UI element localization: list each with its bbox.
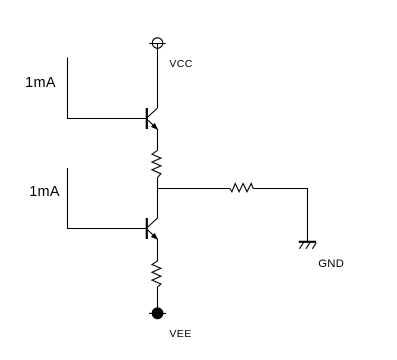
wire (253, 189, 307, 242)
wire (158, 188, 230, 190)
svg-text:GND: GND (318, 258, 344, 270)
VEE terminal (149, 308, 166, 319)
svg-text:1mA: 1mA (29, 184, 60, 200)
svg-text:VEE: VEE (169, 328, 191, 340)
ground (299, 242, 316, 249)
transistor Q1 (147, 108, 158, 129)
wire (157, 287, 159, 308)
wire (157, 44, 159, 109)
VCC terminal (149, 38, 165, 48)
wire (157, 178, 159, 219)
transistor Q2 (147, 218, 158, 239)
wire (68, 58, 147, 119)
wire (157, 129, 159, 150)
wire (68, 168, 147, 229)
svg-text:1mA: 1mA (25, 75, 56, 91)
svg-text:VCC: VCC (169, 58, 192, 70)
resistor R2 (230, 184, 253, 192)
resistor R3 (152, 261, 161, 287)
wire (157, 239, 159, 261)
resistor R1 (152, 150, 161, 177)
